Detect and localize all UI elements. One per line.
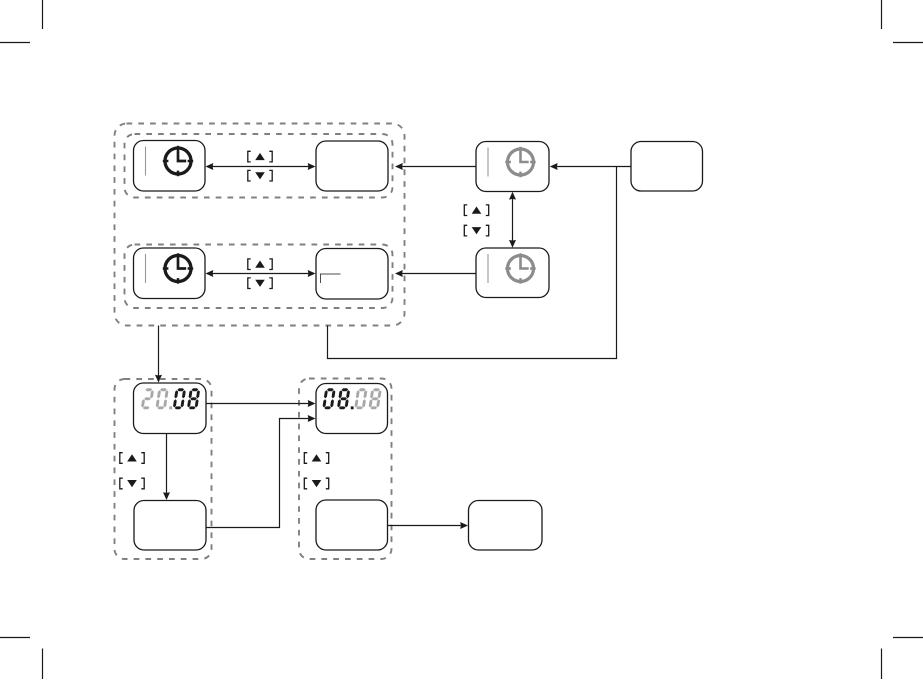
label [up] mode <box>464 205 488 216</box>
label [up] day <box>120 453 144 464</box>
box: hour mode (gray clock) <box>476 142 549 192</box>
label [down] month <box>304 478 328 489</box>
arrow: month blank to end box <box>388 522 469 529</box>
box: start (blank) <box>631 142 703 192</box>
label [down] mode <box>464 225 488 236</box>
dashed group: minute row <box>125 245 393 309</box>
wire: feedback from outer group to mode line <box>328 167 617 359</box>
box: hour set display (black clock) <box>134 141 206 192</box>
label [up] hour <box>248 151 272 162</box>
arrow: start to hour mode <box>550 163 631 170</box>
crop mark top-left <box>0 0 43 43</box>
wire+arrow: day blank to month display <box>206 415 316 528</box>
dashed group: month setting <box>299 379 392 560</box>
crop mark bottom-left <box>0 638 43 680</box>
box: minute mode (gray clock) <box>476 248 549 298</box>
arrow: minute mode to minute row <box>395 270 476 277</box>
box: day blank <box>134 501 206 551</box>
arrow: mode toggle (vertical double) <box>509 192 516 248</box>
dashed group: day setting <box>115 379 212 559</box>
label [down] minute <box>248 278 272 289</box>
label [down] hour <box>248 170 272 181</box>
crop mark bottom-right <box>882 638 923 680</box>
box: minute set display (black clock) <box>134 248 206 299</box>
box: month display 08.08 <box>316 384 388 434</box>
label [up] minute <box>248 259 272 270</box>
box: end (blank) <box>469 501 543 551</box>
box: minute value blank <box>316 249 388 300</box>
box: day display 20.08 <box>134 383 207 434</box>
arrow: hour mode to hour row <box>395 163 476 170</box>
dashed group: hour row <box>125 134 393 198</box>
label [down] day <box>120 478 144 489</box>
box: hour value blank <box>316 141 388 191</box>
7-segment value 20.08 <box>141 388 201 409</box>
arrow: day display to day blank <box>163 434 170 501</box>
arrow: day display to month display <box>206 400 316 407</box>
7-segment value 08.08 <box>322 388 382 409</box>
arrow: minute adjust (double) <box>206 270 316 277</box>
label [up] month <box>304 453 328 464</box>
crop mark top-right <box>882 0 923 43</box>
dashed group: time setting outer <box>115 124 405 326</box>
arrow: hour adjust (double) <box>206 163 316 170</box>
box: month blank <box>316 500 388 550</box>
arrow: time group to day display <box>155 326 162 383</box>
